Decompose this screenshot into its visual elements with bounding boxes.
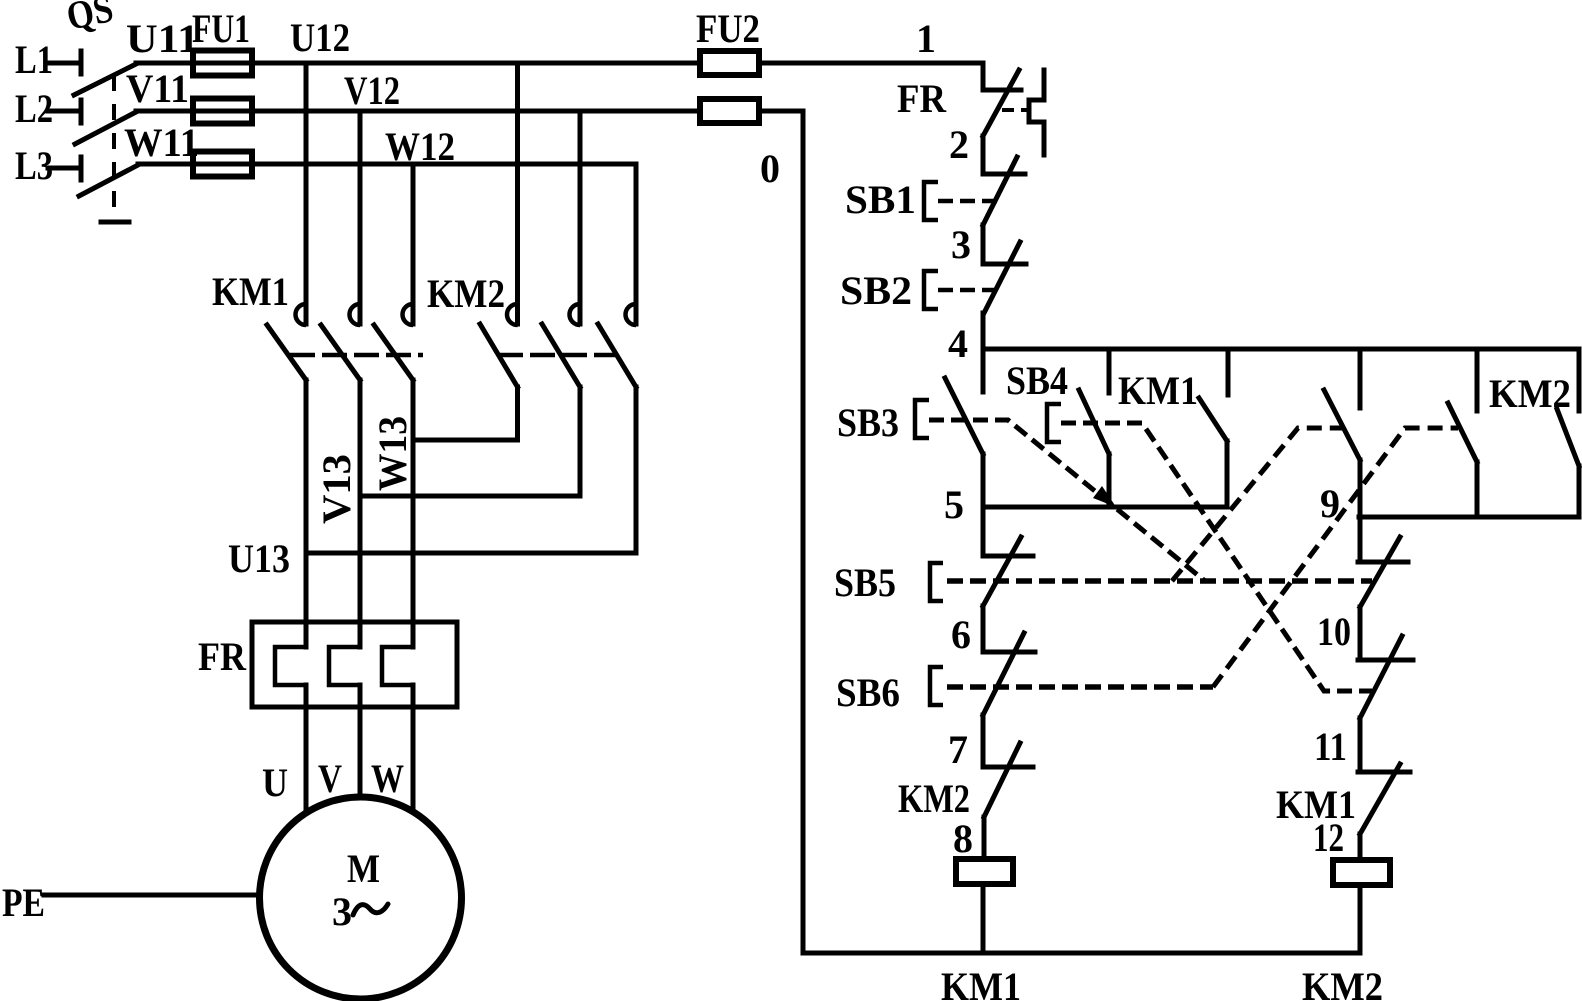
svg-text:0: 0	[760, 146, 780, 191]
svg-text:KM1: KM1	[941, 964, 1021, 1001]
svg-text:KM2: KM2	[1302, 964, 1383, 1001]
svg-text:W: W	[371, 756, 404, 801]
svg-text:M: M	[347, 846, 380, 891]
svg-text:U: U	[262, 760, 288, 805]
svg-text:FU2: FU2	[696, 6, 760, 51]
svg-text:SB1: SB1	[845, 177, 916, 222]
svg-text:KM1: KM1	[1118, 368, 1198, 413]
svg-text:W12: W12	[385, 124, 455, 169]
svg-text:SB5: SB5	[834, 560, 896, 605]
svg-text:L1: L1	[15, 37, 53, 82]
svg-text:3: 3	[951, 222, 971, 267]
svg-text:2: 2	[949, 122, 969, 167]
svg-text:V: V	[318, 756, 342, 801]
svg-text:V12: V12	[344, 68, 400, 113]
svg-text:V13: V13	[314, 454, 359, 524]
svg-text:6: 6	[951, 612, 971, 657]
svg-text:W13: W13	[370, 416, 415, 491]
svg-text:SB6: SB6	[836, 670, 900, 715]
svg-text:KM2: KM2	[1489, 371, 1571, 416]
svg-text:KM1: KM1	[212, 269, 289, 314]
svg-text:KM2: KM2	[898, 776, 970, 821]
svg-text:5: 5	[944, 482, 964, 527]
svg-text:8: 8	[953, 816, 973, 861]
svg-text:10: 10	[1317, 609, 1351, 654]
svg-text:KM2: KM2	[427, 271, 505, 316]
svg-text:7: 7	[948, 727, 968, 772]
svg-text:FR: FR	[198, 634, 247, 679]
svg-text:9: 9	[1320, 481, 1340, 526]
svg-text:1: 1	[916, 16, 936, 61]
svg-text:U13: U13	[228, 536, 290, 581]
svg-text:SB2: SB2	[840, 268, 912, 313]
svg-text:W11: W11	[124, 120, 199, 165]
svg-text:L2: L2	[15, 86, 53, 131]
svg-text:12: 12	[1313, 815, 1344, 860]
svg-text:U11: U11	[126, 16, 199, 61]
svg-text:PE: PE	[2, 880, 45, 925]
svg-text:11: 11	[1314, 724, 1347, 769]
svg-text:FU1: FU1	[192, 6, 250, 51]
svg-text:3: 3	[332, 889, 352, 934]
svg-text:U12: U12	[290, 15, 350, 60]
svg-text:FR: FR	[897, 76, 947, 121]
svg-text:SB3: SB3	[837, 400, 899, 445]
svg-text:SB4: SB4	[1006, 358, 1068, 403]
svg-text:L3: L3	[15, 143, 53, 188]
svg-text:4: 4	[948, 321, 968, 366]
svg-text:V11: V11	[126, 66, 189, 111]
